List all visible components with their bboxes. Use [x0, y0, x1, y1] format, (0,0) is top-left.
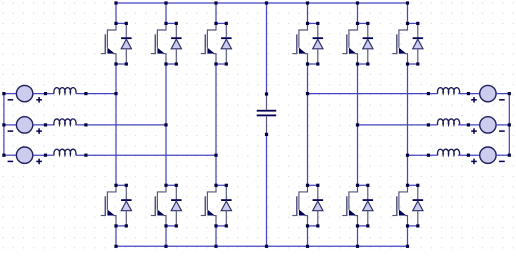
IGBT/diode Q12-D12 (inverter leg C bottom) — [392, 184, 423, 228]
inductor La — [54, 88, 76, 94]
label: Va plus — [36, 97, 42, 103]
IGBT/diode Q5-D5 (rectifier leg C top) — [201, 22, 232, 66]
wire: top bus to leg B1 — [165, 3, 167, 23]
wire: leg C2 lower to bottom bus — [407, 226, 409, 246]
wire: leg C1 lower to bottom bus — [215, 226, 217, 246]
wire: leg A2 lower to bottom bus — [307, 226, 309, 246]
label: Vv minus — [499, 130, 505, 132]
wire: Vw to right bus — [496, 154, 509, 156]
wire: Lc to leg C1 — [76, 154, 216, 156]
IGBT/diode Q4-D4 (rectifier leg B bottom) — [151, 184, 182, 228]
label: Vv plus — [471, 128, 477, 134]
wire: top bus to leg A1 — [115, 3, 117, 23]
wire: leg C2 midpoint vertical — [407, 64, 409, 185]
label: Vc minus — [8, 161, 14, 163]
node: capacitor top terminal — [265, 92, 268, 95]
node dots phase v right — [356, 123, 359, 126]
wire: DC link top to capacitor — [266, 3, 268, 94]
node dots phase u right — [306, 92, 309, 95]
wire: leg A2 to Lu — [308, 93, 438, 95]
wire: Vv to right bus — [496, 124, 509, 126]
node dots phase b left — [2, 123, 5, 126]
IGBT/diode Q1-D1 (rectifier leg A top) — [101, 22, 132, 66]
wire: leg B2 lower to bottom bus — [357, 226, 359, 246]
node dots phase c left — [2, 154, 5, 157]
AC source Vb — [16, 117, 32, 133]
label: Vw minus — [499, 161, 505, 163]
inductor Lc — [54, 149, 76, 155]
node: capacitor bottom terminal — [265, 133, 268, 136]
AC source Va — [16, 85, 32, 101]
AC source Vu — [480, 85, 496, 101]
label: Vw plus — [471, 159, 477, 165]
node dots on bottom bus — [114, 245, 117, 248]
AC source Vv — [480, 117, 496, 133]
IGBT/diode Q3-D3 (rectifier leg B top) — [151, 22, 182, 66]
inductor Lu — [437, 88, 459, 94]
wire: Va to La — [33, 93, 54, 95]
label: Vu minus — [499, 99, 505, 101]
node dots phase a left — [2, 92, 5, 95]
wire: top bus to leg C2 — [407, 3, 409, 23]
IGBT/diode Q9-D9 (inverter leg B top) — [342, 22, 373, 66]
DC+ top bus — [116, 2, 408, 4]
wire: leg A1 midpoint vertical — [115, 64, 117, 185]
wire: Lb to leg B1 — [76, 124, 166, 126]
node dots on top bus — [114, 1, 117, 4]
wire: top bus to leg B2 — [357, 3, 359, 23]
wire: La to leg A1 — [76, 93, 116, 95]
wire: Vc to Lc — [33, 154, 54, 156]
capacitor C1 lead bottom — [266, 116, 268, 134]
AC source Vw — [480, 147, 496, 163]
inductor Lv — [437, 119, 459, 125]
label: Vc plus — [36, 159, 42, 165]
node dots phase w right — [406, 154, 409, 157]
IGBT/diode Q8-D8 (inverter leg A bottom) — [292, 184, 323, 228]
wire: leg C2 to Lw — [408, 154, 438, 156]
inductor Lw — [437, 149, 459, 155]
IGBT/diode Q2-D2 (rectifier leg A bottom) — [101, 184, 132, 228]
wire: Vb to Lb — [33, 124, 54, 126]
wire: Lu to source Vu — [458, 93, 480, 95]
wire: leg A1 lower to bottom bus — [115, 226, 117, 246]
IGBT/diode Q11-D11 (inverter leg C top) — [392, 22, 423, 66]
wire: bus to source Vc — [4, 154, 17, 156]
wire: bus to source Va — [4, 93, 17, 95]
right neutral bus — [508, 94, 510, 156]
IGBT/diode Q7-D7 (inverter leg A top) — [292, 22, 323, 66]
IGBT/diode Q6-D6 (rectifier leg C bottom) — [201, 184, 232, 228]
wire: leg B2 midpoint vertical — [357, 64, 359, 185]
AC source Vc — [16, 147, 32, 163]
wire: top bus to leg C1 — [215, 3, 217, 23]
IGBT/diode Q10-D10 (inverter leg B bottom) — [342, 184, 373, 228]
label: Vb plus — [36, 128, 42, 134]
capacitor C1 plates — [257, 110, 277, 112]
wire: Vu to right bus — [496, 93, 509, 95]
wire: leg B1 lower to bottom bus — [165, 226, 167, 246]
wire: leg B1 midpoint vertical — [165, 64, 167, 185]
wire: top bus to leg A2 — [307, 3, 309, 23]
DC- bottom bus — [116, 245, 408, 247]
left neutral bus — [3, 94, 5, 156]
wire: capacitor to DC link bottom — [266, 134, 268, 246]
wire: leg C1 midpoint vertical — [215, 64, 217, 185]
wire: bus to source Vb — [4, 124, 17, 126]
label: Va minus — [8, 99, 14, 101]
wire: Lw to source Vw — [458, 154, 480, 156]
wire: leg A2 midpoint vertical — [307, 64, 309, 185]
label: Vu plus — [471, 97, 477, 103]
wire: Lv to source Vv — [458, 124, 480, 126]
capacitor C1 lead top — [266, 94, 268, 110]
label: Vb minus — [8, 130, 14, 132]
inductor Lb — [54, 119, 76, 125]
wire: leg B2 to Lv — [358, 124, 438, 126]
